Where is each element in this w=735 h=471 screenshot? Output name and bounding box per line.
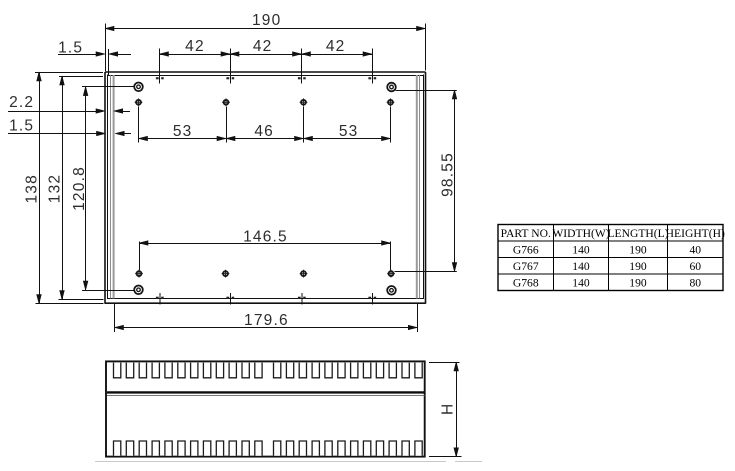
parts table [498,225,725,291]
corner screw boss bottom-right [387,286,396,295]
corner screw boss top-right [387,83,396,92]
dimension 120.8 extension line bottom [82,290,134,292]
dimension 179.6 extension line right [417,303,419,332]
dimension 1.5 top extension line [108,49,110,76]
left wall inner groove line 2 [113,75,115,299]
svg-text:WIDTH(W): WIDTH(W) [552,227,609,240]
svg-text:132: 132 [46,174,63,203]
side view outer rectangle [106,361,425,456]
svg-text:1.5: 1.5 [9,117,34,134]
slot mark top edge 2 [226,77,234,79]
side view top ventilation slots [114,363,423,378]
small mounting hole top row 4 [387,98,395,106]
svg-text:190: 190 [629,260,647,273]
dimension 132 extension line top [59,76,103,78]
dimension 53-46-53 extension line [390,107,392,143]
dimension H extension line top [429,362,460,364]
dimension 146.5 extension line right [390,242,392,271]
small mounting hole top row 3 [300,98,308,106]
dimension 42 chain line [160,54,373,56]
enclosure top-view inner bottom edge [107,298,424,300]
small mounting hole top row 2 [222,98,230,106]
slot mark top edge 3 [298,77,306,79]
right wall inner groove line 1 [419,75,421,299]
dimension 132 extension line bottom [59,299,104,301]
dimension 53-46-53 extension line [303,107,305,143]
svg-text:42: 42 [185,38,205,55]
dimension 146.5 line [139,243,391,245]
dimension H line [456,362,458,457]
svg-text:HEIGHT(H): HEIGHT(H) [666,227,725,240]
dimension 179.6 line [115,327,418,329]
dimension 1.5 left leader line [8,133,99,135]
side view bottom ventilation slots [114,441,423,456]
dimension 53-46-53 extension line [138,107,140,143]
svg-text:PART NO.: PART NO. [501,227,551,240]
dimension 146.5 extension line left [139,242,141,271]
svg-text:140: 140 [572,276,590,289]
dimension 138 extension line bottom [36,303,104,305]
dimension 179.6 extension line left [114,303,116,332]
dimension 42 extension line [301,49,303,84]
svg-text:46: 46 [254,123,274,140]
dimension 120.8 line [85,87,87,290]
dimension 190 extension line right [425,24,427,71]
svg-text:G768: G768 [513,276,539,289]
right wall inner groove line 2 [416,75,418,299]
svg-text:H: H [440,403,457,415]
dimension H extension line bottom [429,456,462,458]
svg-text:140: 140 [572,260,590,273]
side view lid parting line thin [107,395,425,397]
dimension 98.55 line [454,90,456,272]
dimension 42 extension line [159,49,161,84]
svg-text:140: 140 [572,243,590,256]
right wall outer line [425,72,427,304]
svg-text:2.2: 2.2 [9,94,34,111]
faint cropped dimension line bottom [95,461,446,463]
left wall outer line [104,72,106,304]
svg-text:LENGTH(L): LENGTH(L) [607,227,668,240]
svg-text:42: 42 [253,38,273,55]
small mounting hole bottom row 2 [222,270,230,278]
enclosure top-view outer bottom edge [105,302,426,304]
dimension 42 extension line [372,49,374,84]
dimension 138 line [39,72,41,304]
dimension 190 line [105,28,426,30]
svg-text:60: 60 [689,260,701,273]
svg-text:179.6: 179.6 [244,312,289,329]
enclosure top-view outer frame top edge [105,71,426,73]
dimension 1.5 top arrows [96,52,105,57]
svg-text:190: 190 [252,12,281,29]
dimension 138 extension line top [35,72,103,74]
small mounting hole bottom row 3 [300,270,308,278]
small mounting hole bottom row 1 [135,270,143,278]
svg-text:1.5: 1.5 [58,39,83,56]
svg-text:53: 53 [339,123,359,140]
slot mark bottom edge 3 [298,293,306,305]
svg-text:190: 190 [629,276,647,289]
dimension 53-46-53 extension line [226,107,228,143]
right wall second line [423,75,425,300]
corner screw boss bottom-left [134,286,143,295]
dimension 1.5 top leader line [58,54,98,56]
dimension 98.55 extension line bottom [395,271,457,273]
corner screw boss top-left [134,83,143,92]
dimension 2.2 leader line [8,111,98,113]
slot mark bottom edge 4 [368,293,376,305]
dimension 132 line [62,76,64,300]
slot mark top edge 1 [156,77,164,79]
svg-text:138: 138 [23,174,40,203]
small mounting hole bottom row 4 [387,270,395,278]
svg-text:G767: G767 [513,260,539,273]
svg-text:53: 53 [173,123,193,140]
left wall second line [107,75,109,300]
dimension 120.8 extension line top [82,86,134,88]
slot mark bottom edge 1 [156,293,164,305]
svg-text:42: 42 [326,38,346,55]
left wall inner groove line 1 [110,75,112,299]
svg-text:40: 40 [689,243,701,256]
slot mark top edge 4 [368,77,376,79]
svg-text:146.5: 146.5 [243,228,288,245]
dimension 190 extension line left [105,24,107,72]
enclosure top-view inner top edge [107,75,424,77]
dimension 53-46-53 chain line [139,138,391,140]
dimension 98.55 extension line top [396,90,457,92]
side view lid parting line thick [107,391,425,393]
svg-text:120.8: 120.8 [71,166,88,211]
svg-text:80: 80 [689,276,701,289]
small mounting hole top row 1 [135,98,143,106]
svg-text:98.55: 98.55 [440,152,457,197]
svg-text:190: 190 [629,243,647,256]
svg-text:G766: G766 [513,243,539,256]
dimension 42 extension line [230,49,232,84]
slot mark bottom edge 2 [226,293,234,305]
